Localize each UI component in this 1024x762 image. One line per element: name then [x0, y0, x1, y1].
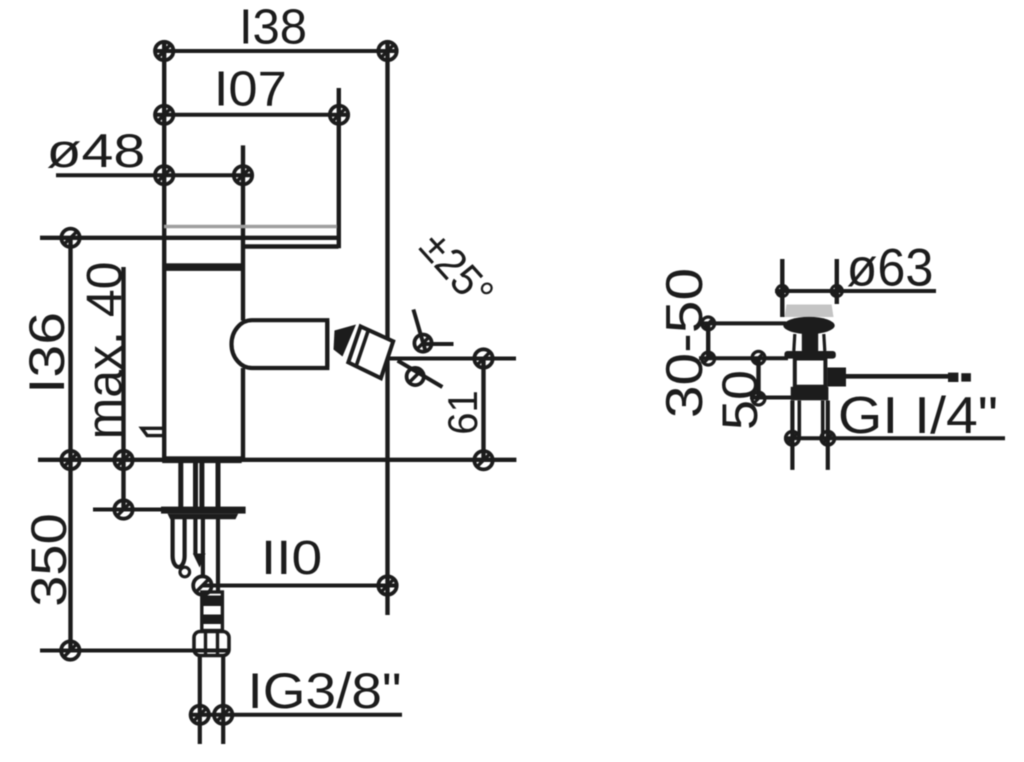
- hose end ring: [180, 567, 190, 577]
- svg-text:30-50: 30-50: [655, 268, 713, 418]
- pop-up actuating rod: [846, 374, 948, 379]
- spout top faint line: [164, 225, 337, 229]
- connector nut: [194, 632, 229, 656]
- marker 138 right: [378, 42, 396, 60]
- 30-50/50 shared reference line: [699, 356, 788, 360]
- marker 136 bottom / 350 top: [61, 451, 79, 469]
- lever end cap line: [325, 321, 329, 367]
- svg-text:ø48: ø48: [47, 126, 146, 178]
- plug cap rim (dark lens): [783, 317, 834, 334]
- marker 107 left: [155, 106, 173, 124]
- dim line G1 1/4: [784, 436, 1005, 440]
- 350 bottom reference line: [40, 649, 229, 653]
- spout height reference line (136 top): [40, 236, 339, 240]
- plug neck dark center: [802, 332, 818, 352]
- dim line ø63: [775, 289, 936, 293]
- marker G1 1/4 right: [821, 431, 835, 445]
- plug cap top (light): [785, 305, 834, 318]
- flange lower trapezoid: [168, 514, 239, 520]
- lock nut (black): [791, 387, 829, 401]
- body base dark line on counter: [162, 456, 242, 463]
- dim line 30-50: [706, 323, 710, 359]
- dark decorative ring on body: [162, 263, 243, 271]
- left supply hose with looped end: [173, 519, 185, 567]
- fixing tab on body left side: [142, 428, 164, 435]
- middle hose left wall: [193, 519, 197, 554]
- dim line max.40: [121, 267, 125, 510]
- marker 350 bottom: [61, 641, 79, 659]
- svg-text:61: 61: [439, 390, 486, 434]
- marker G3/8 left: [191, 706, 209, 724]
- mounting flange bar: [161, 507, 246, 514]
- spout bottom line: [243, 244, 339, 248]
- 61 top reference line: [385, 357, 516, 361]
- spout tip vertical + 107 extension: [337, 88, 341, 248]
- counter/mounting surface line: [38, 458, 516, 462]
- marker ø48 left: [155, 166, 173, 184]
- plug neck right wall: [824, 334, 825, 351]
- marker 30-50 bottom: [702, 352, 715, 365]
- shank line 1: [178, 463, 183, 508]
- washer (dark band): [784, 351, 835, 359]
- marker ø48 right: [234, 166, 252, 184]
- marker angle lower: [407, 368, 424, 385]
- svg-text:max. 40: max. 40: [77, 262, 133, 440]
- marker 110 left: [193, 576, 211, 594]
- angle ref lower diagonal (lever axis): [398, 361, 443, 387]
- marker 61 bottom: [474, 451, 492, 469]
- marker G1 1/4 left: [786, 431, 800, 445]
- marker 138 left: [155, 42, 173, 60]
- right extension line for dims 138 and 110: [385, 40, 389, 615]
- marker 61 top: [474, 349, 492, 367]
- shank line 4 (pop-up rod): [216, 463, 221, 508]
- marker ø63 left: [777, 285, 788, 296]
- angle ref upper diagonal: [413, 310, 425, 352]
- svg-text:50: 50: [713, 370, 769, 430]
- nut facet line left: [204, 632, 207, 654]
- dim line 61: [481, 359, 485, 461]
- svg-text:GI I/4": GI I/4": [838, 386, 998, 444]
- marker 110 right: [378, 576, 396, 594]
- dim line 138: [154, 49, 398, 53]
- middle hose pointed tip: [193, 554, 206, 568]
- ø63 right extension stub: [835, 259, 839, 304]
- marker 50 top: [752, 351, 765, 364]
- plug neck left wall: [794, 334, 795, 351]
- rod tip segment 1: [948, 373, 958, 382]
- side outlet block (black): [827, 368, 846, 387]
- hose connector ribbed body: [202, 592, 223, 631]
- nut facet line right: [216, 632, 219, 654]
- left dim line 136 + 350: [68, 238, 72, 651]
- svg-text:I38: I38: [239, 1, 307, 55]
- 30-50 top reference line: [700, 321, 786, 325]
- tail pipe inner right wall: [821, 401, 825, 438]
- max.40 bottom reference line: [93, 508, 161, 512]
- handle lever capsule: [232, 320, 328, 368]
- marker 136 top: [61, 229, 79, 247]
- svg-text:I36: I36: [18, 312, 75, 394]
- marker 50 bottom: [752, 392, 765, 405]
- dim line 50: [756, 358, 760, 399]
- tail pipe outer left wall: [790, 401, 794, 470]
- connector dark band 1: [202, 596, 223, 607]
- marker max40 bottom: [114, 500, 132, 518]
- connector dark band 2: [202, 615, 223, 625]
- tail pipe inner left wall: [797, 401, 801, 438]
- marker ø63 right: [831, 285, 842, 296]
- dim line 107: [154, 113, 350, 117]
- svg-text:ø63: ø63: [847, 237, 934, 296]
- marker G3/8 right: [214, 706, 232, 724]
- svg-text:II0: II0: [261, 530, 322, 584]
- faucet body right edge lower part: [241, 368, 245, 458]
- rod tip segment 2: [961, 373, 971, 381]
- G3/8 tail pipe right wall: [221, 655, 225, 745]
- faucet body right edge upper part: [241, 145, 245, 320]
- shank line 2: [193, 463, 198, 508]
- ø63 left extension stub: [780, 259, 784, 317]
- faucet body left edge + extension line up to 138 dim: [162, 40, 166, 458]
- marker 107 right: [330, 106, 348, 124]
- knob collar line: [356, 330, 368, 366]
- dim/leader line 1G3/8: [190, 713, 402, 717]
- marker max40 top: [114, 451, 132, 469]
- angle ref short horizontal: [423, 342, 454, 346]
- tail pipe outer right wall: [826, 401, 830, 470]
- marker angle upper: [414, 335, 431, 352]
- G3/8 tail pipe left wall: [198, 655, 202, 745]
- middle hose right wall / continues to 110 marker: [201, 519, 205, 578]
- svg-text:I07: I07: [214, 61, 287, 116]
- handle knob (tilted): [348, 326, 393, 378]
- dim line 110: [202, 584, 397, 588]
- black wedge at knob joint: [334, 325, 357, 357]
- svg-text:350: 350: [22, 513, 78, 606]
- waste body: [795, 359, 826, 387]
- pop-up rod below flange: [216, 519, 220, 592]
- svg-text:IG3/8": IG3/8": [247, 663, 401, 719]
- shank line 3: [199, 463, 204, 508]
- leader line for ø48: [56, 173, 253, 177]
- marker 30-50 top: [702, 317, 715, 330]
- 50 bottom reference line: [750, 396, 795, 400]
